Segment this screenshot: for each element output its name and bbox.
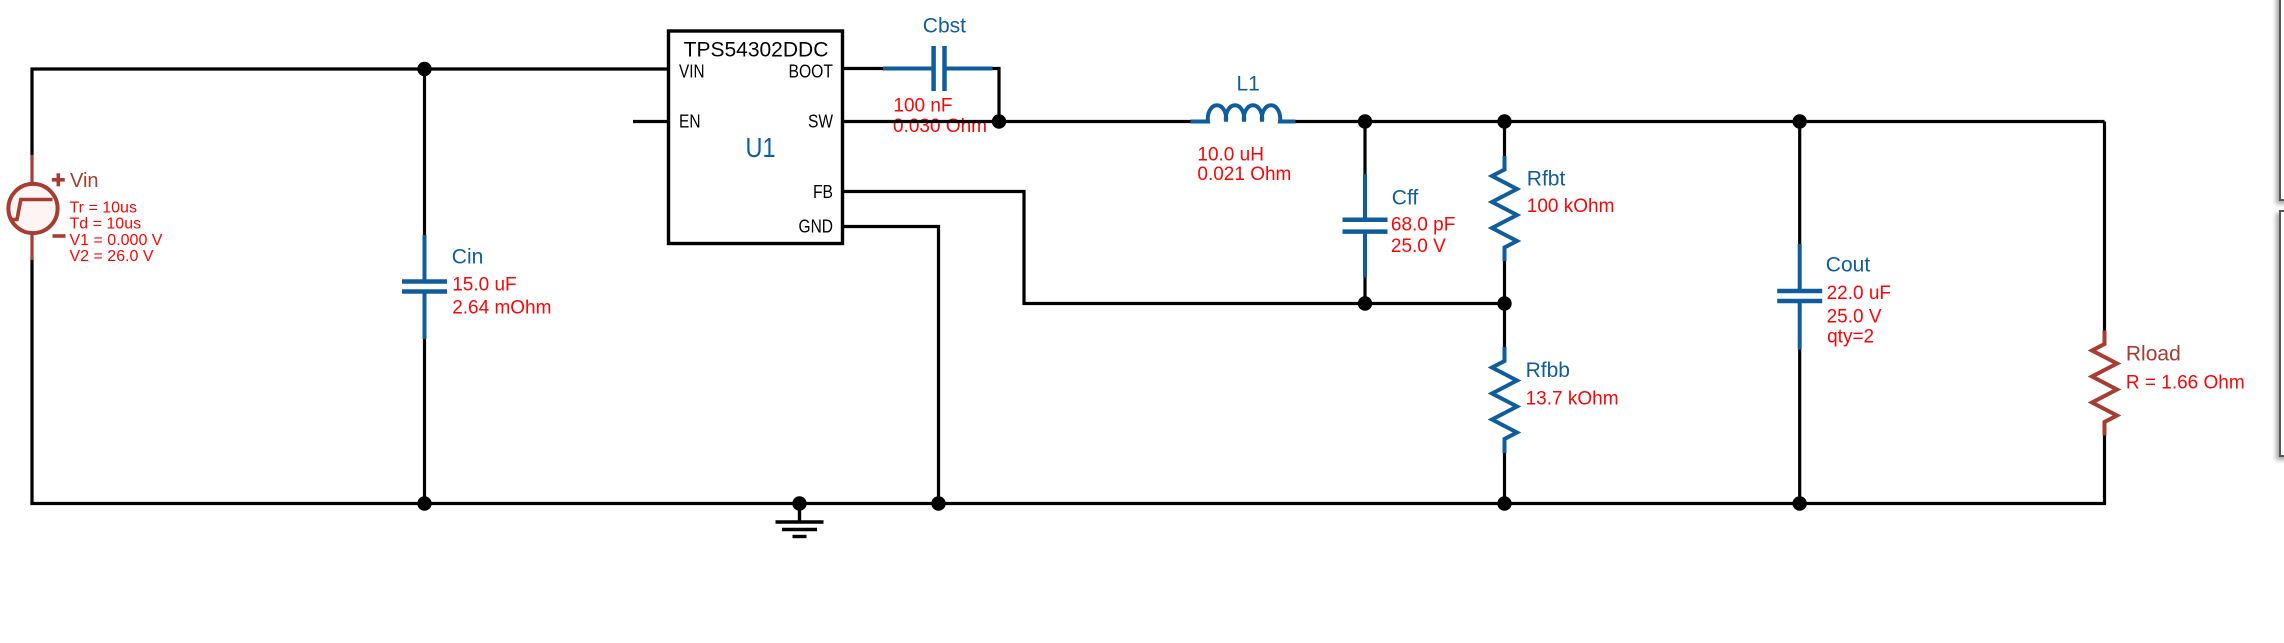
svg-text:R = 1.66 Ohm: R = 1.66 Ohm	[2126, 372, 2245, 393]
capacitor Cff	[1343, 174, 1388, 277]
wire Rfbt branch lower	[1503, 261, 1506, 304]
wire Rfbb branch upper	[1503, 304, 1506, 348]
wire GND pin	[843, 227, 939, 504]
junction dot Cout bottom	[1793, 496, 1807, 510]
svg-text:22.0 uF: 22.0 uF	[1827, 283, 1891, 304]
wire EN stub	[633, 120, 669, 123]
wire Cff branch lower	[1363, 277, 1366, 303]
wire bottom ground rail	[30, 502, 2106, 505]
wire L1 to Vout corner	[1296, 120, 2105, 123]
svg-text:GND: GND	[799, 217, 834, 237]
wire BOOT pin to Cbst	[843, 67, 883, 70]
svg-text:V1 = 0.000 V: V1 = 0.000 V	[70, 232, 163, 249]
svg-text:L1: L1	[1237, 73, 1260, 96]
svg-text:68.0 pF: 68.0 pF	[1391, 215, 1455, 236]
svg-text:25.0 V: 25.0 V	[1827, 307, 1882, 328]
wire Vout right rail upper	[2103, 122, 2106, 331]
junction dot SW node	[992, 114, 1006, 128]
svg-text:Cbst: Cbst	[923, 15, 966, 38]
svg-text:Rfbt: Rfbt	[1527, 167, 1566, 190]
svg-text:FB: FB	[813, 182, 833, 202]
svg-text:V2 = 26.0 V: V2 = 26.0 V	[70, 248, 154, 265]
wire Cin branch lower	[423, 339, 426, 504]
IC U1 TPS54302DDC box	[669, 31, 843, 244]
UI side panel upper	[2279, 0, 2284, 201]
svg-text:SW: SW	[808, 112, 833, 132]
svg-text:Cff: Cff	[1392, 187, 1419, 210]
svg-text:13.7 kOhm: 13.7 kOhm	[1526, 389, 1619, 410]
svg-text:2.64 mOhm: 2.64 mOhm	[452, 297, 551, 318]
wire Cff branch upper	[1363, 122, 1366, 175]
wire FB pin	[843, 192, 1505, 304]
svg-text:15.0 uF: 15.0 uF	[452, 275, 516, 296]
svg-text:Rfbb: Rfbb	[1526, 359, 1570, 382]
wire Rfbt branch upper	[1503, 122, 1506, 157]
svg-text:qty=2: qty=2	[1827, 327, 1874, 348]
capacitor Cbst	[883, 46, 993, 91]
svg-text:BOOT: BOOT	[789, 62, 834, 82]
junction dot top rail / Cin	[417, 62, 431, 76]
junction dot Cin bottom	[417, 496, 431, 510]
wire top rail Vin to U1 VIN pin	[32, 69, 669, 155]
voltage source Vin	[8, 155, 65, 260]
svg-text:VIN: VIN	[679, 62, 705, 82]
svg-text:Vin: Vin	[70, 170, 99, 192]
inductor L1	[1191, 105, 1296, 121]
wire Cin branch upper	[423, 69, 426, 235]
wire Vout right rail lower	[2103, 436, 2106, 504]
wire Cout branch lower	[1798, 349, 1801, 503]
svg-text:U1: U1	[746, 132, 776, 163]
UI side panel lower	[2279, 210, 2284, 457]
junction dot FB Cff	[1358, 296, 1372, 310]
svg-text:0.030 Ohm: 0.030 Ohm	[893, 116, 987, 137]
resistor Rfbb	[1492, 347, 1517, 453]
resistor Rfbt	[1492, 156, 1517, 261]
svg-text:Cout: Cout	[1826, 254, 1871, 277]
svg-text:Cin: Cin	[452, 246, 484, 269]
junction dot Cff top	[1358, 114, 1372, 128]
junction dot Cout top	[1793, 114, 1807, 128]
svg-text:TPS54302DDC: TPS54302DDC	[684, 38, 829, 61]
wire Cout branch upper	[1798, 122, 1801, 245]
wire Cbst to SW node	[993, 69, 1000, 122]
ground symbol	[776, 496, 824, 536]
svg-text:10.0 uH: 10.0 uH	[1197, 144, 1264, 165]
svg-text:100 nF: 100 nF	[893, 95, 952, 116]
capacitor Cout	[1777, 244, 1822, 349]
junction dot FB Rfbt	[1497, 296, 1511, 310]
resistor Rload	[2092, 331, 2117, 436]
junction dot Rfbt top	[1497, 114, 1511, 128]
svg-text:Td = 10us: Td = 10us	[70, 216, 142, 233]
svg-text:100 kOhm: 100 kOhm	[1527, 196, 1615, 217]
wire Rfbb branch lower	[1503, 453, 1506, 504]
svg-text:Rload: Rload	[2126, 343, 2181, 366]
svg-text:EN: EN	[679, 112, 701, 132]
svg-text:0.021 Ohm: 0.021 Ohm	[1197, 164, 1291, 185]
wire left rail below Vin source	[30, 259, 33, 505]
capacitor Cin	[402, 235, 447, 339]
wire SW pin to L1	[843, 120, 1191, 123]
junction dot GND rail	[931, 496, 945, 510]
svg-text:Tr = 10us: Tr = 10us	[70, 199, 137, 216]
junction dot Rfbb bottom	[1497, 496, 1511, 510]
svg-text:25.0 V: 25.0 V	[1391, 236, 1446, 257]
